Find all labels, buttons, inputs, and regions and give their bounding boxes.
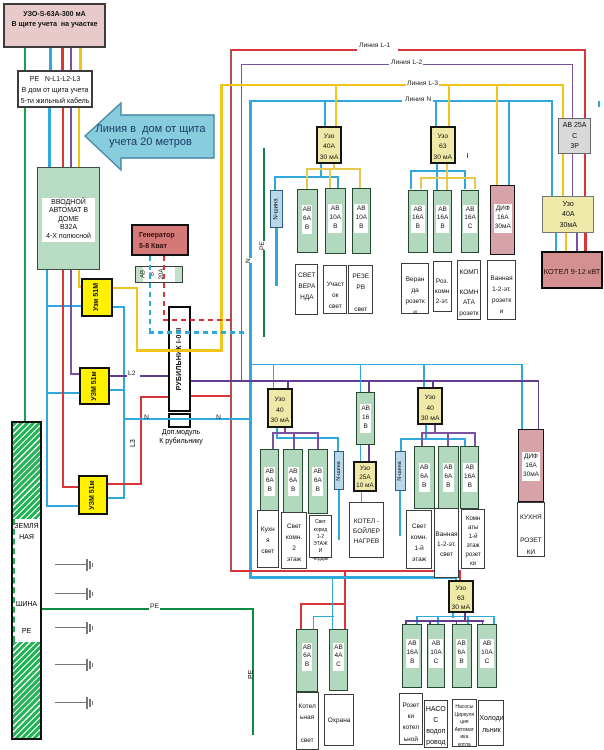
wire purple uzo-kotel [576, 233, 578, 252]
wire yellow up x221.6 to line L-3 [220, 84, 223, 351]
wire N cyan to UZM3 [46, 505, 79, 507]
group1 cyan drop ab2 [337, 176, 339, 189]
bottom purple drop ab2 [429, 620, 431, 624]
group1 uzo 40A 30mA [316, 126, 341, 164]
group4 cyan drop ab3 [464, 438, 466, 447]
group1 yellow rail [306, 168, 361, 170]
ground symbol 4 [55, 664, 86, 665]
ground bus white window [13, 519, 40, 642]
wire N drop x332.5 [332, 576, 334, 616]
cyan tick right edge [598, 101, 600, 107]
wire line N right vertical x551.6 [551, 100, 553, 196]
box add-module for rubilnik [168, 413, 191, 428]
wire N cyan branch UZM1 [46, 305, 82, 307]
ground symbol 3 [55, 627, 86, 628]
label line L-3 [406, 81, 439, 88]
wire red drop x345 [344, 570, 346, 629]
group1 breaker AB 6A B [297, 189, 318, 254]
group4 uzo 40 30mA [417, 387, 443, 425]
wire red rail bottom y569.5 [230, 570, 461, 572]
group1 cyan drop n-bus [274, 176, 276, 191]
group3 cyan down from uzo [276, 428, 278, 438]
group2 dif 16A 30mA [490, 185, 515, 255]
ground bus bar hatched [11, 421, 42, 740]
group4 purple drop ab3 [474, 432, 476, 446]
label N right [215, 415, 222, 422]
label PE rotated group1 [259, 241, 266, 250]
label N left [143, 415, 150, 422]
group2 cyan rail [410, 170, 467, 172]
group3 label svet komn 2 etazh [281, 512, 307, 569]
group3 breaker AB 6A B no.1 [260, 449, 279, 514]
ground symbol 5 [55, 702, 86, 703]
wire N cyan branch UZM2 [46, 392, 80, 394]
box boiler kotel 9-12 kW [541, 251, 603, 289]
wire line L-3 yellow horizontal [220, 84, 406, 86]
group4 N-bus box [395, 451, 406, 491]
wire L1 red box2-box3 [62, 108, 65, 168]
wire L3 yellow below box3 [78, 270, 81, 287]
wire L3 yellow box1-box2 [79, 48, 82, 70]
wire N drop ab-ohrana [332, 616, 334, 629]
wire L2 purple vertical riser x241.3 [241, 64, 243, 382]
group2 breaker AB 16A B no.1 [408, 190, 428, 253]
wire line N cyan horizontal [249, 100, 402, 102]
group2 cyan down from uzo [436, 164, 438, 191]
wire N drop ab-kotelnaya [313, 616, 315, 629]
wire cyan bus x124 vertical [123, 306, 125, 499]
wire L2 purple to UZM2 left [70, 373, 80, 375]
group2 yellow drop ab1 [420, 177, 422, 190]
group1 N-bus tail [275, 228, 277, 286]
wire PE bus horizontal [42, 608, 254, 611]
label shina [13, 601, 40, 608]
wire yellow uzo-kotel [565, 233, 567, 252]
breaker AB 16 B boiler [356, 392, 375, 445]
box AV 25A C 3P [558, 118, 592, 154]
wire generator N dashed cyan vertical [149, 256, 151, 332]
label holodilnik [478, 700, 504, 746]
wire red jog y603 [300, 603, 346, 605]
group3 N-bus box [334, 451, 345, 490]
wire N jog y616.6 [313, 616, 334, 618]
label nasosy cirkulyaciya [452, 699, 477, 747]
bottom purple rail [405, 620, 484, 622]
bottom cyan down from uzo [452, 613, 454, 618]
group4 cyan drop n-bus [400, 438, 402, 452]
group1 yellow down from uzo [333, 164, 335, 170]
wire N drop to dif-1 [508, 100, 510, 185]
breaker AV-V-20A generator [135, 266, 184, 283]
label kotel boiler nagrev [349, 502, 384, 558]
wire N cyan horizontal y419 [123, 418, 250, 420]
box UZM-51M no.2 [79, 367, 110, 406]
green PE stub group1 [263, 148, 265, 337]
wire N rail y364.5 [250, 364, 523, 366]
wire L2 purple box2-box3 [70, 108, 72, 168]
wire N cyan box1-box2 [49, 48, 52, 70]
group1 label uchastok svet [323, 265, 347, 315]
wire PE green vertical left [24, 48, 26, 421]
wire L2 rail drop dif-2 [538, 380, 540, 429]
wire N rail drop uzo40-3 [273, 364, 275, 389]
bottom cyan drop ab3 [467, 616, 469, 625]
wire generator L dashed red horizontal [163, 319, 232, 322]
breaker AB 6A B nasosy [452, 624, 472, 688]
wire N rail drop uzo40-4 [423, 364, 425, 388]
bottom purple drop ab4 [482, 620, 484, 624]
label L2 [127, 371, 137, 378]
label kuhnya rozetki [517, 502, 546, 558]
wire L2 rail drop uzo40-3 [287, 380, 289, 388]
arrow line-to-house [84, 101, 216, 173]
wire N heavy vertical x250 [249, 100, 252, 579]
wire cyan uzo25-label [361, 492, 363, 503]
ground symbol 1 [55, 564, 86, 565]
wire L2 rail y381 [191, 380, 539, 382]
label zemlyanaya [13, 521, 40, 543]
wire line L-2 purple horizontal [241, 64, 390, 66]
group2 label komp komnata rozetk [457, 260, 481, 319]
label nasos vodoprovod [424, 700, 448, 748]
group4 N-bus tail [399, 491, 401, 536]
bottom purple down from uzo [464, 613, 466, 622]
group3 purple rail [272, 432, 320, 434]
wire L1 red vertical riser x230.7 [230, 49, 232, 572]
breaker AB 6A B kotelnaya svet [296, 629, 318, 692]
wire L3 drop to dif-1 [496, 84, 498, 185]
box input breaker house B32A [37, 167, 100, 270]
group2 yellow rail [420, 177, 476, 179]
group4 breaker AB 6A B no.2 [438, 446, 459, 509]
wire L1 red to UZM3 left [62, 486, 79, 488]
box UZM-51M no.1 [81, 278, 114, 317]
group1 cyan down from uzo [320, 164, 322, 178]
group2 cyan drop ab1 [410, 170, 412, 189]
label N rotated group1 [245, 258, 252, 263]
group1 yellow drop ab1 [306, 168, 308, 189]
group4 purple drop ab1 [421, 432, 423, 446]
group4 cyan rail [400, 438, 466, 440]
uzo 25A 10mA boiler [353, 461, 378, 492]
wire line L-1 right vertical x585 [584, 49, 586, 251]
wire cyan uzo-kotel [555, 233, 557, 252]
group1 label rezerv svet [348, 265, 373, 315]
group1 N-bus box [270, 190, 283, 228]
group2 breaker AB 16A B no.2 [433, 190, 452, 253]
label dop modul [147, 428, 215, 446]
wire L1 red box1-box2 [61, 48, 64, 70]
wire N heavy rail bottom y577.3 [249, 576, 456, 579]
wire N drop to uzo40-1 [324, 100, 326, 126]
group2 cyan drop ab3 [464, 170, 466, 189]
group3 N-bus tail [338, 490, 340, 540]
wire N cyan box2-box3 [48, 108, 51, 168]
wire cyan UZM3 right out [108, 497, 125, 499]
bottom cyan drop ab1 [416, 616, 418, 625]
tick mark i [467, 153, 468, 158]
group4 breaker AB 16A B [460, 446, 479, 509]
group3 purple drop ab1 [272, 432, 274, 450]
box disconnector rubilnik I-0-II [168, 306, 191, 412]
group3 label svet korid [309, 515, 333, 557]
wire line L-2 right vertical x572.5 [572, 64, 574, 196]
group4 purple drop ab2 [447, 432, 449, 446]
bottom purple drop ab1 [405, 620, 407, 624]
wire red rubilnik out right [191, 395, 231, 397]
label line N [404, 97, 432, 104]
wire N drop to uzo63 [435, 100, 437, 126]
wire yellow down x137 [136, 287, 139, 352]
group1 yellow drop ab2 [329, 168, 331, 189]
wire yellow UZM1 out right [113, 287, 138, 290]
group2 yellow drop ab3 [474, 177, 476, 190]
group2 label roz komn 2-et [433, 261, 452, 312]
arrow text [87, 123, 214, 149]
wire L2 rail drop av16 [368, 380, 370, 392]
wire generator N dashed cyan horizontal [149, 331, 245, 334]
ground symbol 2 [55, 593, 86, 594]
bottom cyan rail [416, 616, 495, 618]
group2 breaker AB 16A C [461, 190, 479, 253]
box UZO-S-63A meter-shield [3, 3, 106, 48]
group3 breaker AB 6A B no.2 [283, 449, 303, 514]
group4 label svet komn 1 etazh [406, 510, 432, 569]
label PE on bar [13, 628, 40, 635]
group3 purple drop ab3 [317, 432, 319, 450]
wire L3 yellow to UZM1 left [78, 285, 82, 288]
bottom cyan drop ab4 [493, 616, 495, 625]
wire yellow across rubilnik y350 [136, 349, 223, 352]
group4 purple rail [421, 432, 475, 434]
wire N drop av16 [360, 364, 362, 393]
wire line L-3 right vertical x562.6 [562, 84, 564, 196]
group3 purple down from uzo [284, 428, 286, 434]
label ohrana [324, 694, 355, 746]
wire cyan av16-uzo25 [360, 445, 362, 461]
wire red drop uzo63-bottom [459, 570, 461, 580]
wire L3 yellow box2-box3 [78, 108, 81, 168]
label rozetki kotelnoy [399, 693, 424, 746]
wire N rail drop dif-2 [521, 364, 523, 430]
group3 purple drop ab2 [293, 432, 295, 450]
wire red drop ab-kotelnaya [300, 603, 302, 630]
wire L3 drop to uzo63 [448, 84, 450, 126]
uzo 63 30mA bottom [448, 580, 474, 613]
wire L2 rail drop uzo40-4 [432, 380, 434, 387]
wire red uzo-kotel [585, 233, 587, 252]
label PE on bus [149, 604, 160, 611]
group4 purple down from uzo [434, 425, 436, 434]
wire purple av16-uzo25 [368, 445, 370, 461]
group1 breaker AB 10A B no.2 [352, 188, 372, 254]
breaker AB 4A C ohrana [329, 629, 347, 691]
label line L-2 [390, 60, 423, 67]
wire red UZM3 right out [108, 483, 142, 485]
group3 breaker AB 6A B no.3 [308, 449, 329, 514]
group2 label veranda rozetki [401, 263, 429, 314]
group4 breaker AB 6A B no.1 [414, 446, 435, 509]
wire cyan UZM1 right to bus x124 [113, 306, 125, 308]
group3 cyan rail [276, 437, 339, 439]
breaker AB 10A C nasos [427, 624, 445, 688]
wire L2 purple box1-box2 [70, 48, 72, 70]
breaker AB 16A B rozetki kotelnoy [402, 624, 422, 688]
group3 cyan drop n-bus [337, 437, 339, 452]
group4 label vannaya svet [434, 508, 459, 578]
group1 breaker AB 10A B no.1 [325, 188, 346, 254]
wire purple UZM2 out right (L2) [110, 375, 127, 377]
wire generator L dashed red vertical [163, 256, 165, 320]
label line L-1 [358, 43, 391, 50]
bottom cyan drop ab2 [437, 616, 439, 625]
wire N cyan below box3 [46, 270, 49, 507]
wire L2 purple below box3 [70, 270, 72, 374]
label kotelnaya svet [296, 692, 319, 750]
group2 yellow down from uzo [446, 164, 448, 191]
wire N drop uzo63-bottom [455, 576, 457, 580]
wire red to rubilnik left [140, 396, 169, 398]
group4 cyan down from uzo [425, 425, 427, 439]
box UZM-51M no.3 [78, 475, 108, 515]
group1 yellow drop ab3 [359, 168, 361, 189]
wire L3 drop to uzo40-1 [335, 84, 337, 126]
group4 label komnaty rozetki [461, 509, 486, 569]
bottom purple drop ab3 [456, 620, 458, 624]
box generator [131, 224, 189, 256]
label PE rotated bottom [248, 670, 255, 679]
group2 label vannaya rozetki [487, 260, 516, 319]
label L3 rotated [130, 439, 137, 447]
box PE N-L1-L2-L3 cable label [17, 70, 93, 108]
group3 uzo 40 30mA [267, 388, 294, 428]
wire PE bus vertical down right [252, 608, 255, 735]
dif 16A 30mA kitchen [518, 429, 544, 502]
wire red up x140.8 (L3 riser) [140, 396, 142, 485]
wire line L-1 red horizontal [230, 49, 357, 51]
group2 uzo 63 30mA [430, 126, 456, 164]
group1 cyan rail [274, 176, 339, 178]
group3 label kuhnya svet [257, 510, 279, 568]
group1 label svet veranda [295, 264, 318, 315]
wire L1 red below box3 [62, 270, 64, 486]
box uzo 40A 30mA right [542, 196, 594, 233]
wire cyan UZM2 right to bus [110, 389, 124, 391]
breaker AB 10A C holodilnik [477, 624, 497, 688]
